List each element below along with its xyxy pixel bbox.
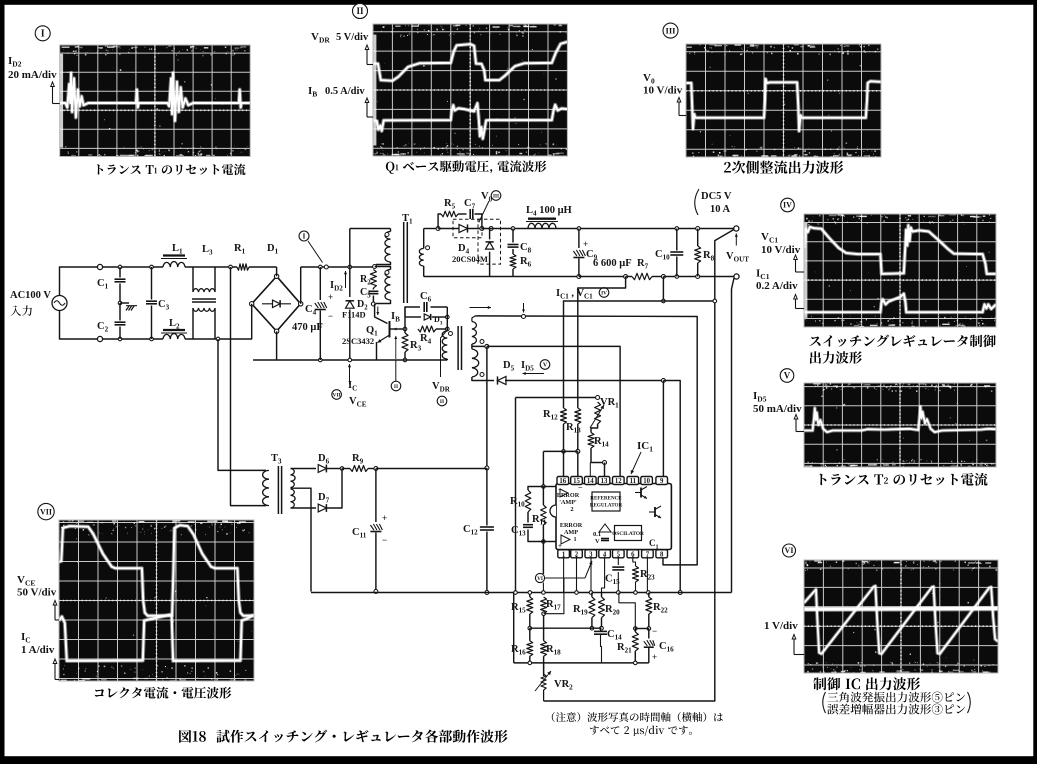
svg-text:10 A: 10 A [710,204,731,215]
wire output sense to R12 [564,301,715,408]
wire T2 tap down to C12 [486,346,488,468]
svg-text:+: + [583,239,588,249]
wire I_C1 V_C1 sense line to IC pin 8 [475,316,697,565]
transformer T2 core [457,326,459,370]
capacitor C14 [594,630,607,632]
wire R7 right sense down [662,277,664,302]
electrolytic capacitor C16 [644,640,655,647]
svg-text:2: 2 [570,506,573,513]
wire V_OUT+ sense down to VR2 return [544,230,734,702]
resistor R23 [633,566,639,582]
svg-text:50 V/div: 50 V/div [17,587,57,599]
svg-text:10 V/div: 10 V/div [761,244,801,256]
electrolytic capacitor C9 6600uF [577,227,581,231]
resistor R6 [510,254,516,269]
svg-text:V: V [784,371,791,381]
wire D5 output line [505,380,663,382]
resistor R22 [646,597,652,614]
capacitor C12 [486,468,488,526]
caption photo VI [813,677,920,690]
resistor R9 [350,466,368,472]
svg-text:ERROR: ERROR [560,522,583,529]
capacitor C8 [511,227,515,231]
svg-text:0.1: 0.1 [593,531,601,538]
resistor R4 [418,326,436,332]
resistor R10 [542,485,546,489]
wire output bottom rail [424,276,579,278]
IC internal oscillator [615,526,642,541]
resistor R7 shunt [632,273,652,279]
wire divider block top [516,397,598,399]
svg-text:11: 11 [630,478,637,485]
diode D4b freewheel [489,229,491,240]
wire left branch down [513,593,515,663]
svg-text:20 mA/div: 20 mA/div [8,69,57,81]
diode D4a series [459,224,468,232]
resistor R14 [588,433,594,449]
resistor R13 [575,408,581,424]
transformer T2 drive winding [446,329,448,331]
svg-text:I: I [41,29,45,40]
wire T2 tap to IC pin 12 [487,346,620,476]
caption photo II [386,160,547,173]
oscilloscope photo II: Q1 base drive voltage and current waveforms [373,24,567,157]
resistor R11 [541,505,547,525]
AC source AC100V [52,296,67,311]
svg-text:1 A/div: 1 A/div [21,644,55,656]
probe circle V for I_D5 [540,360,550,370]
svg-text:I: I [303,232,306,240]
transformer T3 core [277,466,279,514]
electrolytic capacitor C11 [375,469,377,523]
oscilloscope photo V: transformer T2 reset current waveform [804,383,996,468]
photo number circles I-VII [35,26,50,41]
svg-text:VI: VI [785,546,794,555]
svg-text:VII: VII [40,507,52,516]
capacitor C7 snubber [469,209,471,219]
svg-text:−: − [578,483,583,492]
potentiometer VR1 [595,402,601,424]
dual rectifier diode D4 20CS04M dashed outline [453,219,482,238]
transformer T3 secondary winding upper [291,469,296,488]
caption photo VII [95,687,232,699]
svg-text:14: 14 [587,478,594,485]
svg-text:II: II [356,6,364,16]
capacitor C13 [523,524,533,526]
diode D7 [291,507,317,509]
oscilloscope photo I: transformer T1 reset current waveform [60,45,251,157]
svg-text:IV: IV [783,201,792,210]
resistor R20 [599,597,605,618]
transformer T3 primary winding [263,470,269,505]
caption photo V [819,473,987,486]
wire IC pin 7 to R22 [646,557,648,593]
wire IC pin 1 down [563,557,565,593]
transformer T1 secondary winding [423,229,425,249]
svg-text:2SC3432: 2SC3432 [342,336,374,346]
svg-text:−: − [328,311,333,321]
probe V_DR with circle II [441,332,447,378]
svg-text:AC100 V: AC100 V [10,290,51,301]
svg-text:REGULATOR: REGULATOR [590,503,623,509]
wire IC pin 2 to ground rail [576,557,578,593]
wire divider block left side [515,398,517,593]
resistor R21 [632,632,638,651]
svg-text:OSCILATOR: OSCILATOR [612,531,644,537]
diode D3 [405,316,421,318]
figure caption 図18 [179,730,206,743]
svg-text:6 600 μF: 6 600 μF [593,258,632,269]
svg-text:12: 12 [615,478,622,485]
svg-text:AMP: AMP [564,529,578,536]
wire R7 left sense to R13 [578,277,626,409]
svg-text:DC5 V: DC5 V [701,191,732,202]
oscilloscope photo III: secondary rectified output waveform [686,44,881,157]
IC internal transistor [640,488,642,498]
capacitor C15 [617,557,619,566]
resistor R5 snubber [438,214,441,229]
diode D5 [498,376,507,384]
note text about time axis 2us/div [552,712,723,722]
wire V_OUT- down to ground rail [732,278,735,593]
svg-text:−: − [652,626,657,636]
svg-text:16: 16 [559,478,566,485]
svg-text:+: + [328,292,333,302]
svg-text:VII: VII [333,392,341,398]
transformer T3 secondary winding lower [291,489,296,508]
svg-text:8: 8 [660,551,664,558]
resistor R16 [527,641,533,656]
diode D6 [291,468,317,470]
oscilloscope photo IV: switching regulator control output waveform [804,214,996,327]
caption photo III [724,161,843,174]
wire main ground rail [311,592,732,594]
svg-text:IV: IV [601,290,607,296]
svg-text:'AMP': 'AMP' [559,499,577,506]
svg-text:50 mA/div: 50 mA/div [753,403,802,415]
svg-text:V: V [595,538,600,545]
svg-text:1: 1 [573,536,576,543]
resistor R17 [541,597,547,614]
control IC1 body with pins 1-16 [556,484,671,550]
svg-text:L4 100 μH: L4 100 μH [526,205,572,218]
IC internal reference regulator [592,492,620,511]
svg-text:10 V/div: 10 V/div [643,85,683,97]
caption photo IV [809,335,995,348]
svg-text:III: III [493,193,499,199]
wire lower rail [514,662,649,664]
resistor R8 bleeder [696,227,700,231]
svg-text:20CS04M: 20CS04M [452,254,488,264]
transformer T2 secondary winding upper [472,316,475,322]
node V_C1 measuring point with probe circle IV [522,315,526,319]
svg-text:−: − [382,535,387,545]
svg-text:V: V [543,363,548,369]
svg-text:REFERENCE: REFERENCE [590,496,622,502]
potentiometer VR2 [541,674,546,690]
svg-text:1 V/div: 1 V/div [764,620,798,632]
resistor R19 [589,597,595,618]
svg-text:13: 13 [601,478,608,485]
IC internal transistor 2 [654,507,656,517]
resistor R18 [541,641,547,656]
svg-text:+: + [382,513,387,523]
probe circle VI to IC pin 3 [535,573,544,582]
oscilloscope photo VII: collector current and voltage waveforms [59,520,254,682]
IC internal 0.1V reference [599,524,611,532]
resistor R12 [561,408,567,424]
wire IC pin 4 down [602,557,605,593]
probe circle III for V0 [491,191,501,201]
svg-text:470 μF: 470 μF [292,322,323,333]
wire IC pin 3 down [590,557,592,593]
wire T3 center tap to ground rail [291,488,312,591]
svg-text:III: III [666,26,677,36]
svg-text:5 V/div: 5 V/div [336,32,369,43]
svg-text:II: II [440,399,444,405]
output terminals V_OUT DC5V 10A [734,226,739,231]
svg-text:II: II [394,384,398,390]
svg-text:+: + [558,486,562,494]
capacitor C10 [675,227,679,231]
svg-text:0.5 A/div: 0.5 A/div [325,86,365,97]
oscilloscope photo VI: control IC output waveform [804,560,998,674]
caption photo I [97,164,246,175]
wire D5 node down to ground rail [663,381,680,593]
svg-text:VI: VI [537,576,543,582]
wire output top rail [482,228,736,230]
svg-text:10: 10 [643,478,650,485]
resistor R15 [527,597,533,614]
svg-text:F114D: F114D [342,310,366,320]
inductor L4 100uH [528,217,556,219]
svg-text:+: + [652,652,657,662]
wire D5 node to IC pin 9 [662,381,664,477]
transformer T2 secondary winding lower [472,349,479,377]
svg-text:+: + [558,542,562,550]
svg-text:0.2 A/div: 0.2 A/div [756,280,798,292]
wire aux supply to C12 node [376,468,487,470]
svg-text:9: 9 [660,478,664,485]
